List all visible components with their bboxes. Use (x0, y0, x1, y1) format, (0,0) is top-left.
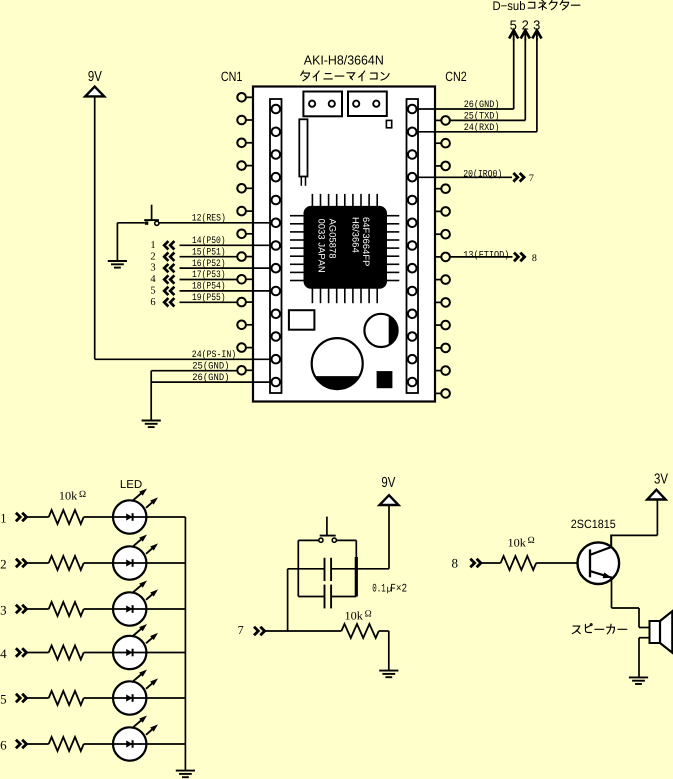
LED D3 (113, 581, 158, 626)
power symbol 9V (middle) (380, 495, 399, 505)
node 3 label (CN1 side) (150, 263, 155, 274)
svg-text:LED: LED (120, 479, 142, 491)
wire LED D3 to common bus (146, 608, 185, 610)
node 3 label (LED input) (0, 603, 7, 618)
svg-text:3: 3 (0, 603, 7, 618)
wire 12(RES) (159, 222, 272, 224)
wire node 8 to resistor R8 (481, 562, 501, 564)
connector J1 on board (303, 92, 342, 117)
wire 16(P52) with output chevron (164, 264, 271, 272)
svg-text:4: 4 (0, 646, 7, 661)
LED D4 (113, 624, 158, 669)
node 2 label (CN1 side) (150, 251, 155, 262)
wire node 4 to resistor R4 (27, 652, 49, 654)
IC U2 top pins (312, 194, 377, 207)
label LED (120, 479, 142, 491)
label 14(P50) (192, 235, 226, 246)
svg-text:10k: 10k (345, 611, 364, 623)
label 9V (left) (88, 69, 102, 85)
wire resistor R7 to ground (379, 631, 389, 671)
resistor R2 10k (49, 556, 84, 570)
node 5 label (LED input) (0, 692, 7, 707)
wire GND drop (150, 371, 152, 421)
connector CN2 outer pin circles with stubs (435, 116, 450, 398)
input chevron node 5 (16, 694, 27, 703)
label 3V (654, 472, 668, 488)
ground (LED bus) (176, 771, 195, 778)
wire node 7 to resistor R7 (265, 630, 342, 632)
wire node 5 to resistor R5 (27, 697, 49, 699)
wire 25(TXD) to D-sub pin 2 (450, 31, 530, 121)
speaker SP1 (650, 611, 673, 653)
node 8 label (right) (532, 253, 537, 264)
label 10kΩ (R8) (508, 536, 535, 549)
wire node 2 to resistor R2 (27, 562, 49, 564)
label 25(GND) (192, 361, 229, 372)
svg-text:10k: 10k (59, 491, 78, 503)
wire node 3 to resistor R3 (27, 608, 49, 610)
wire collector to 3V (610, 500, 657, 536)
node 1 label (CN1 side) (150, 240, 155, 251)
svg-text:D−sub: D−sub (493, 0, 526, 13)
wire 14(P50) with output chevron (164, 241, 271, 249)
svg-text:18(P54): 18(P54) (192, 281, 226, 292)
wire resistor R2 to LED D2 (84, 562, 113, 564)
wire resistor R5 to LED D5 (84, 697, 113, 699)
svg-text:17(P53): 17(P53) (192, 269, 226, 280)
label 17(P53) (192, 269, 226, 280)
label 24(PS-IN) (192, 349, 236, 360)
svg-text:24(PS-IN): 24(PS-IN) (192, 349, 236, 360)
IC U2 right pins (387, 216, 400, 281)
connector J2 on board (348, 92, 387, 117)
wire 9V to capacitor rail (388, 505, 390, 569)
label 19(P55) (192, 292, 226, 303)
node 5 label (CN1 side) (150, 286, 155, 297)
svg-text:3V: 3V (654, 472, 668, 488)
pushbutton switch S1 (reset) (144, 205, 159, 226)
svg-text:1: 1 (150, 240, 155, 251)
wire resistor R3 to LED D3 (84, 608, 113, 610)
capacitor C4 plates (325, 585, 332, 609)
ground (reset switch) (108, 261, 127, 268)
svg-text:12(RES): 12(RES) (192, 213, 226, 224)
IC U2 part number text (317, 217, 371, 273)
capacitor C3 plates (325, 558, 332, 581)
label 10kΩ (R7) (345, 610, 372, 623)
node 1 label (LED input) (0, 511, 7, 526)
crystal X1 (299, 119, 307, 186)
resistor R3 10k (49, 602, 84, 616)
svg-text:Ω: Ω (365, 610, 372, 620)
transistor Q1 2SC1815 (578, 535, 620, 584)
label 25(TXD) (464, 110, 500, 121)
resistor R1 10k (49, 510, 84, 524)
wire speaker to ground (639, 638, 650, 678)
svg-text:5: 5 (0, 692, 7, 707)
svg-text:1: 1 (0, 511, 7, 526)
label 18(P54) (192, 281, 226, 292)
power symbol 3V (647, 490, 665, 500)
label タイニーマイコン (301, 71, 389, 81)
wire capacitor C3 rail (288, 568, 389, 570)
svg-text:15(P51): 15(P51) (192, 246, 226, 257)
wire LED D1 to common bus (146, 516, 185, 518)
wire switch S2 right side (336, 540, 356, 596)
svg-text:19(P55): 19(P55) (192, 292, 226, 303)
svg-text:6: 6 (150, 297, 155, 308)
LED D5 (113, 670, 158, 715)
wire resistor R8 to base (536, 562, 589, 564)
wire resistor R6 to LED D6 (84, 743, 113, 745)
capacitor C1 round (small) (364, 314, 397, 347)
node 4 label (CN1 side) (150, 274, 156, 285)
svg-text:2: 2 (0, 557, 7, 572)
D-sub pin numbers 5 2 3 (510, 18, 541, 33)
resistor R4 10k (49, 646, 84, 660)
input chevron node 3 (16, 605, 27, 614)
label 13(FTIOD) (463, 249, 509, 260)
svg-text:25(GND): 25(GND) (192, 361, 229, 372)
LED common bus wire (184, 517, 186, 771)
label 26(GND) right (464, 99, 500, 110)
label CN2 (445, 69, 467, 84)
wire 18(P54) with output chevron (164, 287, 271, 295)
label 9V (middle) (381, 475, 395, 491)
label 2SC1815 (571, 517, 616, 531)
wire 15(P51) with output chevron (164, 253, 237, 261)
resistor R8 10k (501, 556, 537, 570)
IC U2 left pins (290, 216, 304, 281)
svg-text:6: 6 (0, 738, 7, 753)
input chevron node 7 (254, 627, 265, 636)
svg-text:26(GND): 26(GND) (192, 372, 229, 383)
resistor R7 10k (341, 624, 378, 638)
svg-text:8: 8 (452, 555, 459, 570)
wire 20(IRQ0) with chevron to node 7 (417, 173, 525, 182)
label 12(RES) (192, 213, 226, 224)
wire 13(FTIOD) with chevron to node 8 (450, 253, 525, 262)
label CN1 (221, 69, 243, 84)
input chevron node 6 (16, 740, 27, 749)
node 7 label (right) (529, 173, 534, 184)
wire 9V rail to pin 24 (95, 96, 272, 359)
wire LED D6 to common bus (146, 743, 185, 745)
svg-text:2: 2 (150, 251, 155, 262)
IC U2 H8/3664 body (304, 206, 387, 288)
wire switch S2 left side (298, 540, 319, 596)
svg-text:16(P52): 16(P52) (192, 258, 226, 269)
svg-text:13(FTIOD): 13(FTIOD) (463, 249, 509, 260)
input chevron node 2 (16, 559, 27, 568)
wire node 6 to resistor R6 (27, 743, 49, 745)
connector CN2 inner pin holes (408, 105, 417, 387)
wire 19(P55) with output chevron (164, 298, 237, 306)
svg-text:4: 4 (150, 274, 156, 285)
svg-text:5: 5 (150, 286, 155, 297)
svg-text:0.1: 0.1 (372, 582, 386, 595)
svg-text:7: 7 (529, 173, 534, 184)
svg-text:AKI-H8/3664N: AKI-H8/3664N (304, 53, 384, 68)
input chevron node 8 (470, 559, 481, 568)
LED D2 (113, 535, 158, 580)
svg-text:AG05878: AG05878 (327, 219, 337, 259)
label 15(P51) (192, 246, 226, 257)
wire 17(P53) with output chevron (164, 275, 237, 283)
microcontroller board outline (253, 87, 435, 402)
node 6 label (LED input) (0, 738, 7, 753)
node 7 label (middle) (238, 623, 244, 637)
label 16(P52) (192, 258, 226, 269)
wire 26(GND) (151, 381, 271, 383)
label D-subコネクター (493, 0, 580, 13)
wire LED D4 to common bus (146, 652, 185, 654)
label 24(RXD) (464, 122, 500, 133)
connector CN1 header strip (270, 99, 282, 393)
svg-text:9V: 9V (381, 475, 395, 491)
svg-text:14(P50): 14(P50) (192, 235, 226, 246)
small component square on board (386, 120, 391, 127)
label 0.1uF x2 (372, 582, 407, 595)
svg-text:Ω: Ω (528, 536, 535, 546)
svg-text:7: 7 (238, 623, 244, 637)
wire capacitor C4 rail (298, 596, 356, 598)
svg-text:25(TXD): 25(TXD) (464, 110, 500, 121)
wire 25(GND) (151, 370, 237, 372)
node 6 label (CN1 side) (150, 297, 155, 308)
node 2 label (LED input) (0, 557, 7, 572)
wire emitter to speaker (612, 577, 650, 628)
svg-text:Ω: Ω (79, 490, 86, 500)
label 20(IRQ0) (463, 168, 502, 179)
node 4 label (LED input) (0, 646, 7, 661)
label スピーカー (572, 624, 627, 634)
node 8 label (transistor input) (452, 555, 459, 570)
resistor R5 10k (49, 691, 84, 705)
power symbol 9V (left) (85, 87, 104, 97)
wire LED D5 to common bus (146, 697, 185, 699)
capacitor C2 round (large) (312, 338, 363, 389)
svg-text:26(GND): 26(GND) (464, 99, 500, 110)
LED D6 (113, 716, 158, 761)
svg-text:2SC1815: 2SC1815 (571, 517, 616, 531)
svg-text:CN2: CN2 (445, 69, 467, 84)
svg-text:CN1: CN1 (221, 69, 243, 84)
svg-text:F×2: F×2 (390, 582, 407, 595)
label AKI-H8/3664N (304, 53, 384, 68)
component rectangle on board (289, 310, 315, 330)
wire resistor R1 to LED D1 (84, 516, 113, 518)
svg-text:3: 3 (150, 263, 155, 274)
IC U2 bottom pins (312, 288, 377, 303)
wire switch S1 to ground (117, 223, 144, 261)
svg-text:10k: 10k (508, 537, 527, 549)
ground (speaker) (629, 677, 648, 684)
pushbutton switch S2 (319, 517, 337, 543)
resistor R6 10k (49, 737, 84, 751)
svg-text:H8/3664: H8/3664 (351, 217, 361, 253)
connector CN1 outer pin circles with stubs (237, 93, 253, 375)
connector CN2 header strip (407, 99, 419, 393)
LED D1 (113, 489, 158, 534)
label 26(GND) (192, 372, 229, 383)
svg-text:20(IRQ0): 20(IRQ0) (463, 168, 502, 179)
wire 26(GND) to D-sub pin 5 (417, 31, 519, 110)
component black square on board (377, 371, 393, 388)
svg-text:24(RXD): 24(RXD) (464, 122, 500, 133)
connector CN1 inner pin holes (272, 105, 281, 387)
input chevron node 1 (16, 513, 27, 522)
input chevron node 4 (16, 648, 27, 657)
wire junction to node 7 line (287, 569, 289, 631)
svg-text:8: 8 (532, 253, 537, 264)
svg-text:64F3664FP: 64F3664FP (361, 217, 371, 266)
svg-text:9V: 9V (88, 69, 102, 85)
ground (board GND) (142, 421, 161, 428)
wire node 1 to resistor R1 (27, 516, 49, 518)
ground (R7) (379, 671, 398, 678)
wire LED D2 to common bus (146, 562, 185, 564)
wire 24(RXD) to D-sub pin 3 (417, 31, 542, 132)
wire resistor R4 to LED D4 (84, 652, 113, 654)
label 10kΩ (LED resistors) (59, 490, 86, 503)
svg-text:0033 JAPAN: 0033 JAPAN (317, 219, 327, 273)
